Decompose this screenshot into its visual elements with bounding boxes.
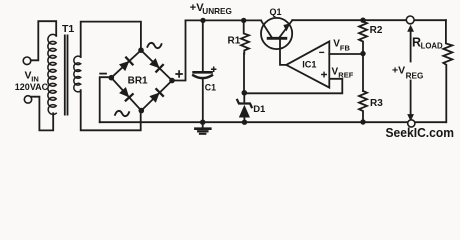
transformer T1 primary winding <box>48 34 56 114</box>
wire upper VIN to transformer primary top <box>31 21 56 60</box>
capacitor C1 bottom lead <box>202 78 204 122</box>
bottom rail (ground) <box>100 121 446 123</box>
bridge diode 1 (left to top) <box>119 58 133 72</box>
top rail right (reg) <box>292 19 446 21</box>
transistor Q1 collector lead <box>261 21 271 37</box>
svg-text:SeekIC.com: SeekIC.com <box>386 125 455 140</box>
wire bridge plus up to unreg rail <box>172 20 186 80</box>
C1 plus sign <box>212 67 216 71</box>
svg-text:C1: C1 <box>205 83 216 93</box>
svg-text:LOAD: LOAD <box>421 42 443 51</box>
svg-text:REF: REF <box>338 70 353 79</box>
transistor Q1 base bar <box>268 37 286 40</box>
svg-text:T1: T1 <box>62 23 74 35</box>
svg-text:D1: D1 <box>253 104 266 115</box>
IC1 plus sign <box>322 72 327 77</box>
bridge diode 2 (top to right) <box>149 58 163 72</box>
resistor R1 <box>241 20 249 53</box>
svg-text:120VAC: 120VAC <box>15 82 49 92</box>
svg-text:UNREG: UNREG <box>202 7 232 16</box>
IC1 minus sign <box>320 51 324 53</box>
bridge minus sign <box>100 73 106 75</box>
zener diode D1 <box>243 93 245 102</box>
VREG annotation arrow bottom <box>410 81 412 116</box>
svg-text:FB: FB <box>340 44 351 53</box>
capacitor C1 top lead <box>202 20 204 70</box>
resistor R3 <box>359 91 367 122</box>
transistor Q1 emitter arrow <box>283 22 291 31</box>
svg-text:R2: R2 <box>370 25 383 36</box>
AC tilde bottom <box>115 111 129 116</box>
divider line VFB node down to R3 <box>362 54 364 91</box>
transistor Q1 emitter lead <box>280 20 293 37</box>
transistor Q1 circle <box>261 18 292 49</box>
resistor R2 <box>359 20 367 51</box>
op-amp IC1 <box>286 41 329 87</box>
svg-text:Q1: Q1 <box>270 7 282 17</box>
load resistor RLOAD <box>443 20 452 122</box>
junction dots <box>109 18 366 125</box>
capacitor C1 plates <box>194 71 212 74</box>
svg-text:REG: REG <box>406 72 424 81</box>
transformer T1 core <box>64 35 69 116</box>
output terminal bottom <box>408 120 415 127</box>
svg-text:IC1: IC1 <box>302 59 316 69</box>
terminal lower VIN <box>24 96 31 103</box>
wire bridge minus to ground rail <box>100 77 112 122</box>
wire VREF net D1 to IC1 plus input <box>244 79 342 94</box>
bridge plus sign <box>176 71 182 77</box>
ground symbol <box>202 122 204 128</box>
transformer T1 secondary winding <box>74 56 81 92</box>
output terminal top <box>406 16 414 24</box>
top rail left (unreg) <box>186 19 262 21</box>
terminal upper VIN <box>23 57 31 65</box>
wire secondary top to bridge top <box>81 22 141 57</box>
AC tilde top <box>147 43 161 48</box>
svg-text:R3: R3 <box>370 98 383 109</box>
bridge rectifier BR1 diamond <box>111 50 172 110</box>
svg-text:+V: +V <box>392 65 405 77</box>
bridge diode 3 (left to bottom) <box>119 87 133 101</box>
bridge diode 4 (bottom to right) <box>149 89 163 103</box>
svg-text:R1: R1 <box>228 36 241 47</box>
wire secondary bottom to bridge bottom <box>81 90 141 130</box>
transistor Q1 base lead <box>280 40 286 65</box>
wire lower VIN to transformer primary bottom <box>32 97 54 131</box>
VREG annotation arrow top <box>410 30 412 62</box>
IC1 minus input wire VFB <box>329 53 363 55</box>
svg-text:BR1: BR1 <box>128 75 148 86</box>
